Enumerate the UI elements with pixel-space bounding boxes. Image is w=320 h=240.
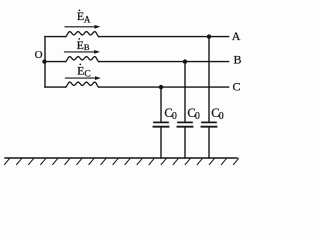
svg-text:A: A	[232, 29, 241, 43]
svg-text:O: O	[35, 49, 43, 61]
svg-text:C: C	[233, 79, 241, 93]
svg-text:A: A	[84, 14, 91, 24]
svg-text:E: E	[77, 38, 84, 52]
svg-text:E: E	[77, 64, 84, 78]
svg-text:0: 0	[219, 111, 224, 122]
svg-text:C: C	[84, 70, 90, 80]
svg-text:0: 0	[172, 111, 177, 122]
svg-text:B: B	[234, 53, 242, 67]
svg-text:B: B	[84, 42, 90, 52]
svg-text:0: 0	[195, 111, 200, 122]
